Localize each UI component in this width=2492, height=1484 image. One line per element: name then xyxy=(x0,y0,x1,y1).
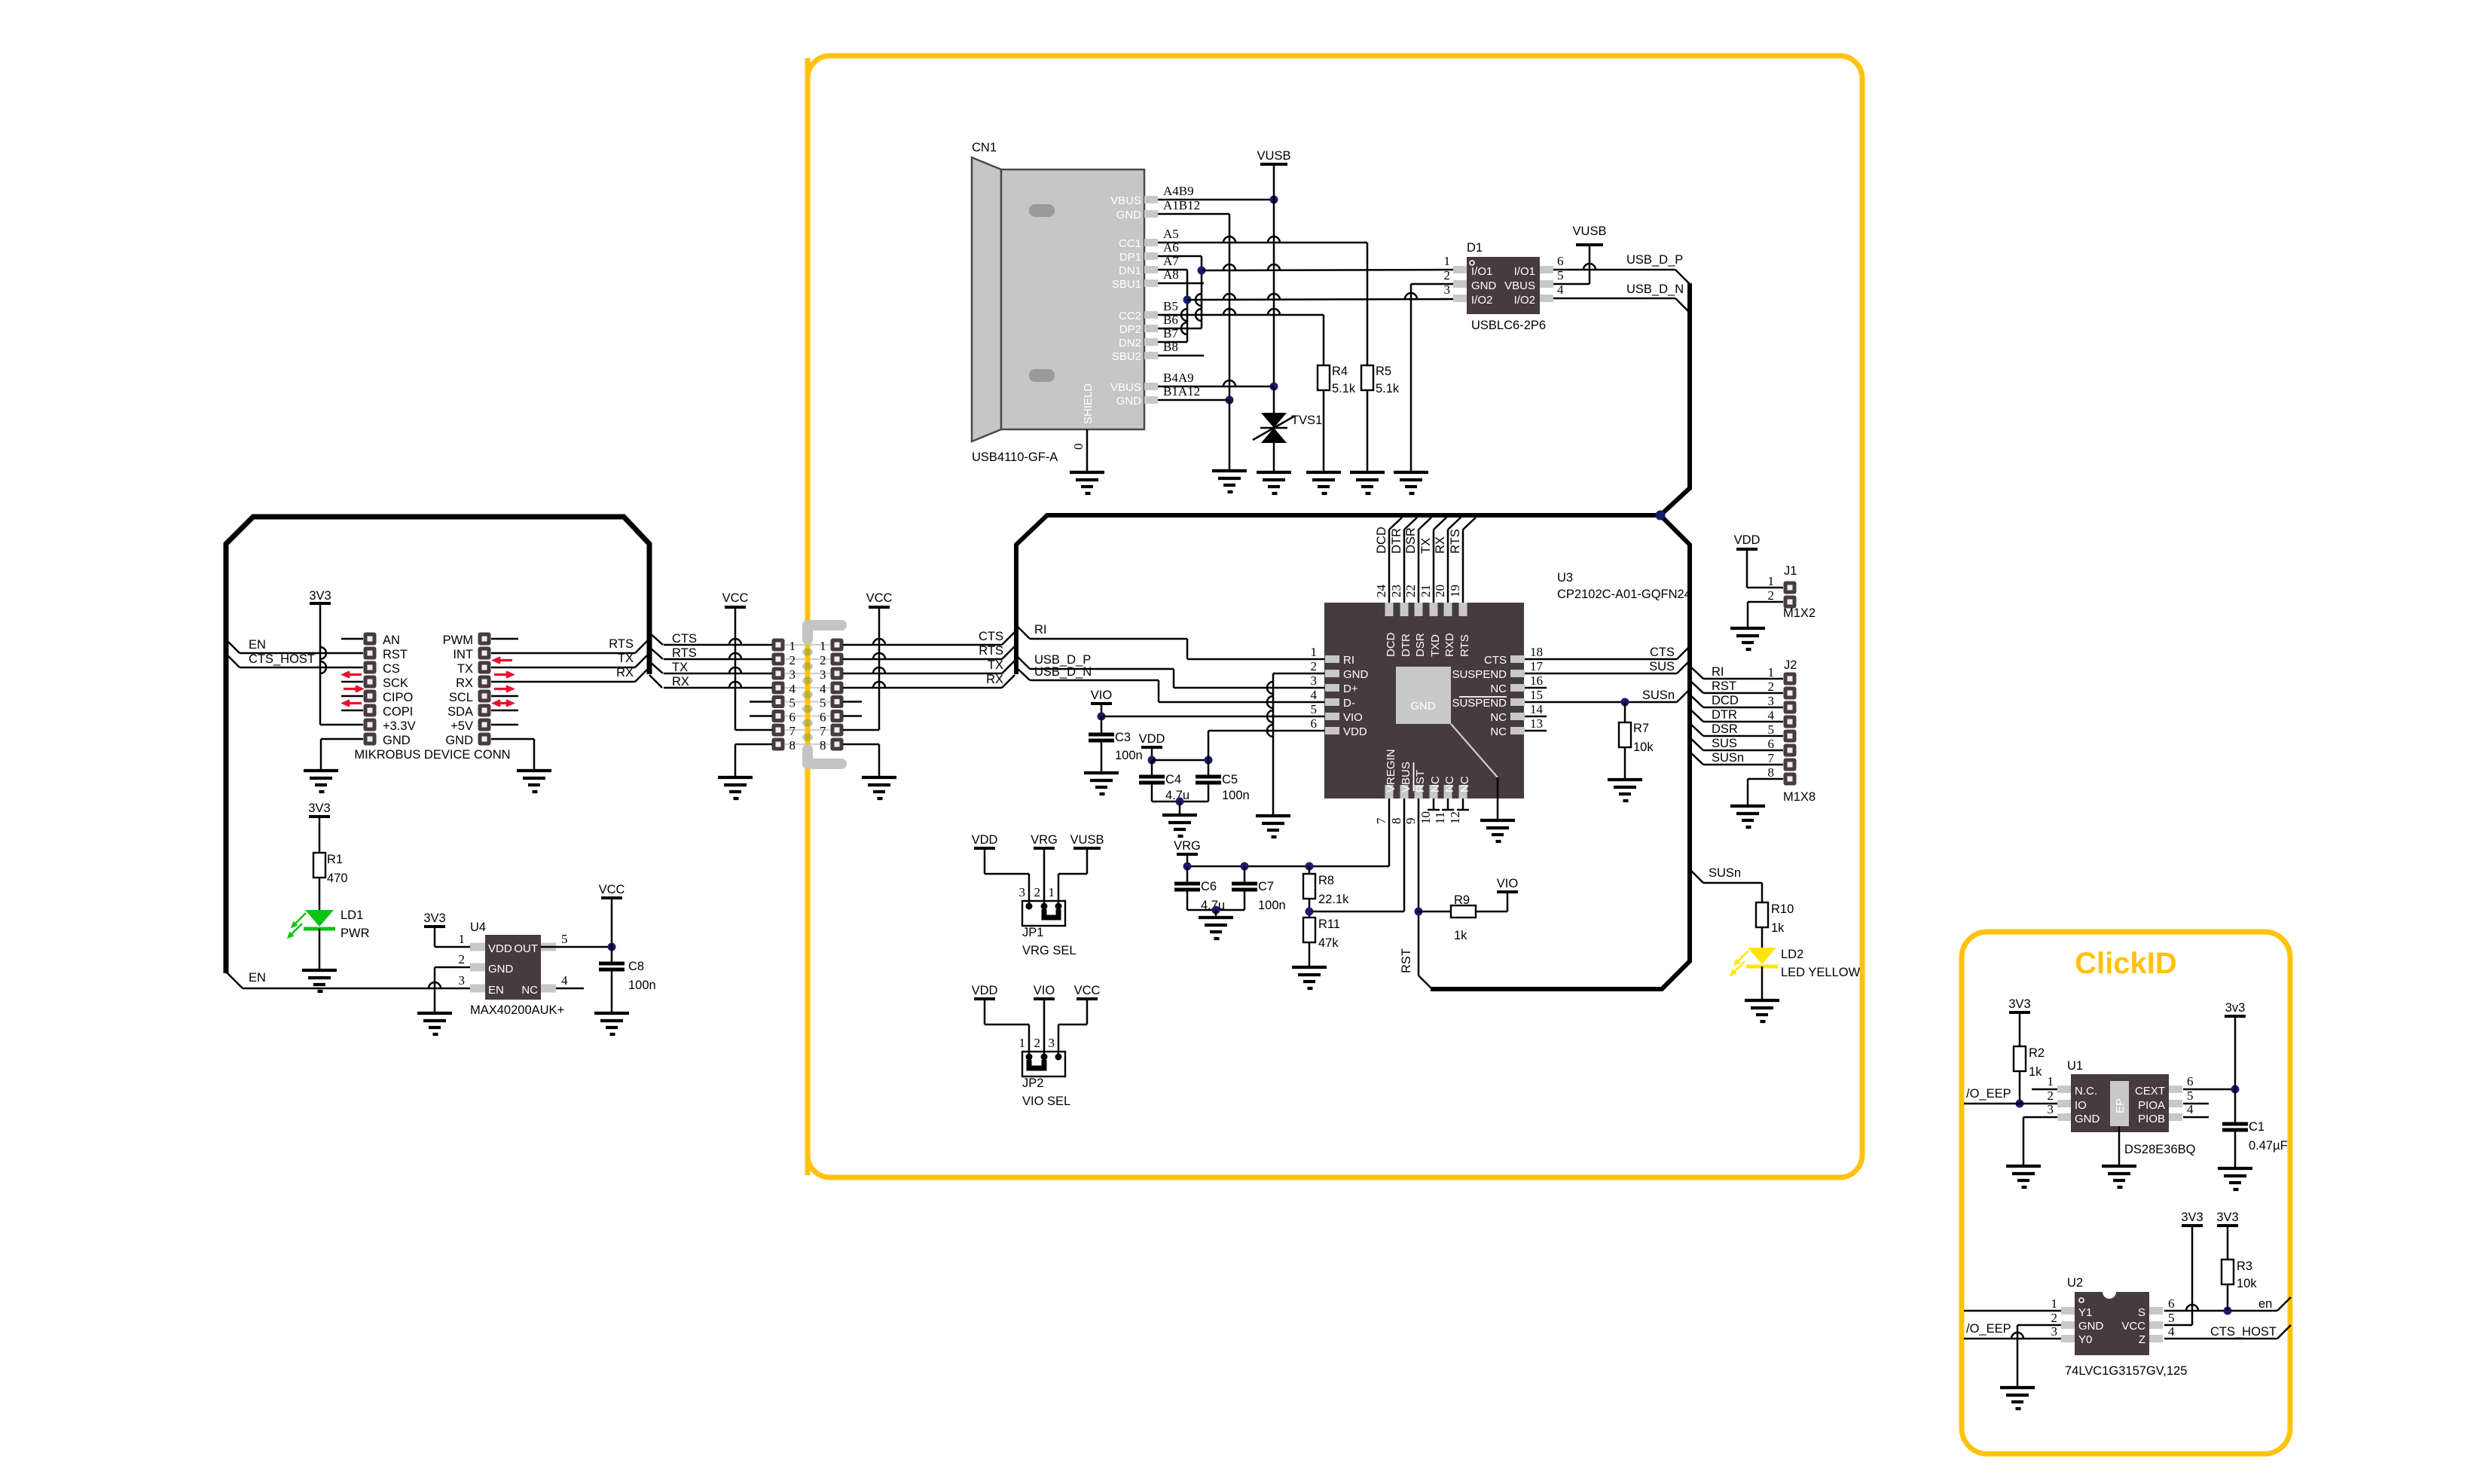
svg-text:TX: TX xyxy=(1419,538,1433,554)
svg-text:2: 2 xyxy=(1768,588,1775,603)
svg-text:8: 8 xyxy=(789,738,796,753)
svg-text:RX: RX xyxy=(456,676,473,690)
svg-text:VDD: VDD xyxy=(972,984,998,997)
svg-text:DTR: DTR xyxy=(1712,708,1737,722)
svg-text:J2: J2 xyxy=(1784,658,1797,672)
svg-text:1k: 1k xyxy=(2029,1065,2042,1079)
svg-text:RI: RI xyxy=(1343,654,1354,667)
svg-text:21: 21 xyxy=(1419,585,1433,597)
svg-text:M1X8: M1X8 xyxy=(1783,790,1816,804)
svg-text:USB_D_N: USB_D_N xyxy=(1034,665,1092,679)
svg-text:+5V: +5V xyxy=(450,719,473,733)
svg-text:20: 20 xyxy=(1433,585,1447,597)
svg-text:RX: RX xyxy=(616,666,634,679)
svg-text:5: 5 xyxy=(2168,1311,2175,1325)
svg-text:10: 10 xyxy=(1419,811,1433,824)
svg-text:R9: R9 xyxy=(1454,893,1470,907)
svg-text:U3: U3 xyxy=(1557,571,1573,585)
svg-text:6: 6 xyxy=(2187,1074,2194,1089)
svg-text:RXD: RXD xyxy=(1443,633,1456,657)
svg-text:RST: RST xyxy=(1712,679,1736,693)
svg-text:CTS: CTS xyxy=(979,630,1003,643)
svg-text:VIO SEL: VIO SEL xyxy=(1022,1095,1070,1108)
svg-text:3: 3 xyxy=(1768,694,1775,708)
svg-text:N.C.: N.C. xyxy=(2075,1085,2097,1098)
svg-text:47k: 47k xyxy=(1318,936,1339,950)
svg-text:1: 1 xyxy=(2051,1296,2058,1311)
svg-text:R4: R4 xyxy=(1332,365,1348,378)
svg-text:VCC: VCC xyxy=(722,591,749,605)
svg-text:GND: GND xyxy=(383,734,411,747)
svg-text:7: 7 xyxy=(1768,751,1775,765)
svg-text:5: 5 xyxy=(1768,722,1775,737)
svg-text:8: 8 xyxy=(1389,818,1403,825)
svg-text:OUT: OUT xyxy=(514,942,538,955)
svg-text:5: 5 xyxy=(1311,702,1318,716)
svg-text:1: 1 xyxy=(1768,574,1775,588)
svg-text:A5: A5 xyxy=(1163,227,1179,241)
svg-text:R2: R2 xyxy=(2029,1046,2045,1060)
svg-text:MIKROBUS DEVICE CONN: MIKROBUS DEVICE CONN xyxy=(354,748,510,762)
svg-text:NC: NC xyxy=(1490,682,1507,695)
svg-text:1: 1 xyxy=(1019,1036,1026,1050)
svg-text:GND: GND xyxy=(1343,668,1369,681)
svg-text:NC: NC xyxy=(1443,776,1456,792)
svg-text:17: 17 xyxy=(1530,659,1544,673)
svg-text:JP1: JP1 xyxy=(1022,926,1043,939)
svg-text:10k: 10k xyxy=(1633,740,1654,754)
svg-text:DN1: DN1 xyxy=(1119,264,1141,277)
svg-text:DS28E36BQ: DS28E36BQ xyxy=(2124,1143,2196,1156)
svg-text:en: en xyxy=(2258,1297,2272,1311)
svg-text:U4: U4 xyxy=(470,921,486,934)
svg-text:VUSB: VUSB xyxy=(1573,224,1607,238)
svg-text:NC: NC xyxy=(521,984,538,997)
svg-text:VCC: VCC xyxy=(599,883,625,896)
svg-text:SDA: SDA xyxy=(447,705,473,719)
svg-text:CIPO: CIPO xyxy=(383,691,414,704)
svg-text:CC1: CC1 xyxy=(1119,237,1141,250)
svg-text:CS: CS xyxy=(383,662,400,676)
svg-text:1: 1 xyxy=(459,932,466,946)
svg-text:3v3: 3v3 xyxy=(2225,1001,2246,1015)
svg-text:100n: 100n xyxy=(628,979,656,992)
svg-text:C6: C6 xyxy=(1201,880,1217,893)
svg-text:10k: 10k xyxy=(2237,1277,2257,1290)
svg-text:23: 23 xyxy=(1389,585,1403,597)
svg-text:RST: RST xyxy=(1414,770,1427,792)
svg-text:R3: R3 xyxy=(2237,1260,2252,1273)
svg-text:4: 4 xyxy=(820,682,826,696)
svg-text:5: 5 xyxy=(561,932,568,946)
svg-text:TVS1: TVS1 xyxy=(1291,414,1322,427)
svg-text:3: 3 xyxy=(820,667,826,682)
svg-text:B4A9: B4A9 xyxy=(1163,371,1194,385)
svg-text:SUS: SUS xyxy=(1712,737,1737,750)
svg-text:2: 2 xyxy=(2048,1089,2054,1103)
svg-text:100n: 100n xyxy=(1115,749,1143,762)
svg-text:EP: EP xyxy=(2114,1098,2127,1113)
svg-text:5.1k: 5.1k xyxy=(1376,382,1400,395)
svg-text:DSR: DSR xyxy=(1404,527,1418,554)
svg-text:GND: GND xyxy=(445,734,473,747)
svg-text:1: 1 xyxy=(2048,1074,2054,1089)
svg-text:LED YELLOW: LED YELLOW xyxy=(1781,966,1861,979)
svg-text:470: 470 xyxy=(327,872,348,885)
svg-text:24: 24 xyxy=(1374,585,1388,598)
svg-text:U2: U2 xyxy=(2067,1276,2083,1290)
svg-text:0.47µF: 0.47µF xyxy=(2249,1139,2288,1153)
svg-text:RX: RX xyxy=(986,673,1003,686)
svg-text:INT: INT xyxy=(453,648,473,661)
svg-text:Z: Z xyxy=(2139,1333,2145,1346)
svg-text:R5: R5 xyxy=(1376,365,1391,378)
svg-text:1: 1 xyxy=(820,639,826,653)
svg-text:SUSPEND: SUSPEND xyxy=(1452,668,1507,681)
svg-text:RST: RST xyxy=(1400,948,1413,973)
svg-text:6: 6 xyxy=(1768,737,1775,751)
svg-text:J1: J1 xyxy=(1784,564,1797,578)
svg-text:JP2: JP2 xyxy=(1022,1076,1043,1090)
svg-text:TX: TX xyxy=(672,661,688,674)
svg-text:2: 2 xyxy=(459,952,466,966)
svg-text:2: 2 xyxy=(820,653,826,667)
svg-text:LD1: LD1 xyxy=(341,908,363,922)
svg-text:14: 14 xyxy=(1530,702,1544,716)
svg-text:GND: GND xyxy=(488,963,514,976)
svg-text:TXD: TXD xyxy=(1429,634,1442,657)
svg-text:DCD: DCD xyxy=(1375,527,1388,554)
svg-text:4: 4 xyxy=(1311,688,1318,702)
svg-text:2: 2 xyxy=(1311,659,1318,673)
svg-text:VIO: VIO xyxy=(1091,689,1113,702)
svg-text:22: 22 xyxy=(1403,585,1418,597)
svg-text:VRG: VRG xyxy=(1031,833,1058,847)
svg-text:3: 3 xyxy=(1019,885,1026,899)
svg-text:13: 13 xyxy=(1530,716,1543,731)
svg-text:VBUS: VBUS xyxy=(1400,762,1412,792)
svg-text:4: 4 xyxy=(561,973,568,988)
svg-text:DP2: DP2 xyxy=(1119,323,1141,336)
svg-text:SUSn: SUSn xyxy=(1709,866,1741,880)
svg-text:R11: R11 xyxy=(1318,918,1340,931)
svg-text:VCC: VCC xyxy=(866,591,893,605)
svg-text:RI: RI xyxy=(1034,623,1047,637)
svg-text:COPI: COPI xyxy=(383,705,413,719)
svg-text:SCL: SCL xyxy=(449,691,473,704)
svg-text:5: 5 xyxy=(820,696,826,710)
svg-text:3V3: 3V3 xyxy=(423,911,445,925)
svg-text:A4B9: A4B9 xyxy=(1163,184,1194,198)
svg-text:R1: R1 xyxy=(327,853,343,866)
svg-text:I/O2: I/O2 xyxy=(1471,294,1492,307)
svg-text:3V3: 3V3 xyxy=(2216,1211,2238,1224)
svg-text:2: 2 xyxy=(1034,885,1041,899)
svg-text:5: 5 xyxy=(789,696,796,710)
svg-text:1: 1 xyxy=(1768,665,1775,679)
svg-text:18: 18 xyxy=(1530,645,1543,659)
svg-text:4: 4 xyxy=(789,682,796,696)
svg-text:C1: C1 xyxy=(2249,1120,2264,1134)
svg-text:3V3: 3V3 xyxy=(2181,1211,2203,1224)
svg-text:SBU1: SBU1 xyxy=(1112,278,1141,291)
svg-text:S: S xyxy=(2138,1306,2145,1319)
svg-text:GND: GND xyxy=(1116,209,1142,221)
svg-text:0: 0 xyxy=(1071,444,1086,450)
svg-text:3: 3 xyxy=(2051,1324,2058,1339)
svg-text:2: 2 xyxy=(1034,1036,1041,1050)
svg-text:15: 15 xyxy=(1530,688,1543,702)
svg-text:5: 5 xyxy=(2187,1089,2194,1103)
svg-text:SUS: SUS xyxy=(1649,660,1675,673)
svg-text:+3.3V: +3.3V xyxy=(383,719,416,733)
svg-text:VUSB: VUSB xyxy=(1257,149,1291,163)
svg-text:RST: RST xyxy=(383,648,408,661)
svg-text:SUSPEND: SUSPEND xyxy=(1452,697,1507,710)
svg-text:3V3: 3V3 xyxy=(309,589,331,603)
svg-text:EN: EN xyxy=(249,638,266,652)
svg-text:C3: C3 xyxy=(1115,731,1131,744)
svg-text:EN: EN xyxy=(488,984,504,997)
svg-text:Y0: Y0 xyxy=(2078,1333,2092,1346)
svg-text:GND: GND xyxy=(1410,700,1436,713)
svg-text:GND: GND xyxy=(1471,279,1497,292)
svg-text:TX: TX xyxy=(457,662,473,676)
svg-text:NC: NC xyxy=(1490,711,1507,724)
svg-text:I/O1: I/O1 xyxy=(1514,265,1535,278)
svg-text:DCD: DCD xyxy=(1385,632,1397,657)
svg-text:DTR: DTR xyxy=(1390,528,1403,554)
svg-text:RTS: RTS xyxy=(979,644,1003,658)
svg-text:6: 6 xyxy=(789,710,796,725)
svg-text:9: 9 xyxy=(1403,818,1418,825)
svg-text:VRG SEL: VRG SEL xyxy=(1022,944,1077,957)
svg-text:CTS: CTS xyxy=(1484,654,1507,667)
svg-text:RI: RI xyxy=(1712,665,1724,679)
svg-text:8: 8 xyxy=(820,738,826,753)
svg-text:1: 1 xyxy=(789,639,796,653)
svg-text:U1: U1 xyxy=(2067,1059,2083,1073)
svg-text:2: 2 xyxy=(1768,679,1775,694)
svg-text:USB_D_N: USB_D_N xyxy=(1626,282,1684,296)
svg-text:SHIELD: SHIELD xyxy=(1082,383,1095,424)
svg-text:/O_EEP: /O_EEP xyxy=(1966,1322,2011,1336)
svg-text:RTS: RTS xyxy=(1458,634,1471,657)
svg-text:LD2: LD2 xyxy=(1781,948,1803,961)
svg-text:7: 7 xyxy=(1374,817,1388,824)
svg-text:CC2: CC2 xyxy=(1119,310,1141,322)
svg-text:2: 2 xyxy=(2051,1311,2058,1325)
svg-text:PWR: PWR xyxy=(341,927,370,940)
svg-text:VIO: VIO xyxy=(1497,877,1519,890)
svg-text:VBUS: VBUS xyxy=(1504,279,1535,292)
svg-text:SCK: SCK xyxy=(383,676,408,690)
svg-text:M1X2: M1X2 xyxy=(1783,606,1816,620)
svg-text:NC: NC xyxy=(1429,776,1442,792)
svg-text:GND: GND xyxy=(2075,1113,2100,1125)
svg-text:PIOB: PIOB xyxy=(2138,1113,2165,1125)
svg-text:USBLC6-2P6: USBLC6-2P6 xyxy=(1471,319,1546,332)
svg-text:CTS_HOST: CTS_HOST xyxy=(2210,1325,2277,1339)
svg-text:3V3: 3V3 xyxy=(2008,997,2030,1011)
svg-text:IO: IO xyxy=(2075,1099,2087,1112)
svg-text:6: 6 xyxy=(820,710,826,725)
svg-text:CTS: CTS xyxy=(672,632,697,646)
svg-text:SUSn: SUSn xyxy=(1642,689,1675,702)
svg-text:DSR: DSR xyxy=(1414,633,1427,657)
svg-text:100n: 100n xyxy=(1222,789,1250,802)
svg-text:Y1: Y1 xyxy=(2078,1306,2092,1319)
svg-text:VREGIN: VREGIN xyxy=(1385,749,1397,792)
svg-text:R10: R10 xyxy=(1771,902,1794,916)
svg-text:5.1k: 5.1k xyxy=(1332,382,1356,395)
svg-text:SBU2: SBU2 xyxy=(1112,350,1141,363)
svg-text:VDD: VDD xyxy=(1139,732,1165,746)
svg-text:VRG: VRG xyxy=(1174,839,1201,853)
svg-text:VDD: VDD xyxy=(1343,725,1367,738)
svg-text:TX: TX xyxy=(988,658,1003,672)
svg-text:CTS: CTS xyxy=(1650,646,1675,659)
svg-text:DN2: DN2 xyxy=(1119,337,1141,350)
svg-text:AN: AN xyxy=(383,634,400,647)
svg-text:6: 6 xyxy=(1311,716,1318,731)
svg-text:PIOA: PIOA xyxy=(2138,1099,2165,1112)
svg-text:100n: 100n xyxy=(1258,899,1286,912)
svg-text:I/O2: I/O2 xyxy=(1514,294,1535,307)
svg-text:1k: 1k xyxy=(1454,929,1467,942)
svg-text:C8: C8 xyxy=(628,960,644,973)
svg-text:D1: D1 xyxy=(1467,241,1483,255)
svg-text:VBUS: VBUS xyxy=(1110,381,1141,394)
svg-text:GND: GND xyxy=(2078,1320,2104,1333)
svg-text:7: 7 xyxy=(789,724,796,738)
svg-text:22.1k: 22.1k xyxy=(1318,893,1349,906)
svg-text:RX: RX xyxy=(672,675,689,689)
svg-text:SUSn: SUSn xyxy=(1712,751,1744,765)
svg-text:VBUS: VBUS xyxy=(1110,194,1141,207)
svg-text:VCC: VCC xyxy=(1074,984,1101,997)
svg-text:RTS: RTS xyxy=(1449,529,1462,554)
svg-text:6: 6 xyxy=(1557,254,1564,268)
svg-text:C4: C4 xyxy=(1165,773,1181,786)
svg-text:RTS: RTS xyxy=(609,637,634,651)
svg-text:/O_EEP: /O_EEP xyxy=(1966,1087,2011,1101)
svg-text:VUSB: VUSB xyxy=(1070,833,1104,847)
svg-text:3V3: 3V3 xyxy=(308,802,330,815)
svg-text:DP1: DP1 xyxy=(1119,251,1141,264)
svg-text:MAX40200AUK+: MAX40200AUK+ xyxy=(470,1003,564,1017)
svg-text:VDD: VDD xyxy=(1734,533,1761,547)
svg-text:4: 4 xyxy=(2168,1324,2175,1339)
svg-text:R8: R8 xyxy=(1318,874,1334,887)
svg-text:I/O1: I/O1 xyxy=(1471,265,1492,278)
svg-text:DCD: DCD xyxy=(1712,694,1739,707)
svg-text:74LVC1G3157GV,125: 74LVC1G3157GV,125 xyxy=(2065,1364,2187,1378)
svg-text:C7: C7 xyxy=(1258,880,1274,893)
svg-text:USB_D_P: USB_D_P xyxy=(1626,253,1683,267)
svg-text:4: 4 xyxy=(1768,708,1775,722)
svg-text:1k: 1k xyxy=(1771,921,1785,935)
svg-text:2: 2 xyxy=(1444,268,1451,282)
svg-text:NC: NC xyxy=(1490,725,1507,738)
svg-text:EN: EN xyxy=(249,971,266,985)
svg-text:CP2102C-A01-GQFN24: CP2102C-A01-GQFN24 xyxy=(1557,588,1691,601)
svg-text:1: 1 xyxy=(1049,885,1055,899)
svg-text:8: 8 xyxy=(1768,765,1775,780)
svg-text:GND: GND xyxy=(1116,395,1142,408)
svg-text:USB4110-GF-A: USB4110-GF-A xyxy=(972,450,1058,464)
svg-text:6: 6 xyxy=(2168,1296,2175,1311)
svg-text:3: 3 xyxy=(1311,673,1318,688)
svg-text:ClickID: ClickID xyxy=(2075,947,2177,980)
svg-text:1: 1 xyxy=(1444,254,1451,268)
svg-text:CEXT: CEXT xyxy=(2135,1085,2165,1098)
svg-text:D-: D- xyxy=(1343,697,1355,710)
svg-text:VDD: VDD xyxy=(972,833,998,847)
svg-text:RTS: RTS xyxy=(672,646,697,660)
svg-text:2: 2 xyxy=(789,653,796,667)
svg-text:3: 3 xyxy=(1049,1036,1055,1050)
svg-text:TX: TX xyxy=(618,652,634,665)
svg-text:3: 3 xyxy=(789,667,796,682)
svg-text:DTR: DTR xyxy=(1400,634,1412,657)
svg-text:NC: NC xyxy=(1458,776,1471,792)
svg-text:D+: D+ xyxy=(1343,682,1358,695)
svg-text:R7: R7 xyxy=(1633,722,1649,735)
svg-text:VDD: VDD xyxy=(488,942,512,955)
svg-text:C5: C5 xyxy=(1222,773,1238,786)
svg-text:19: 19 xyxy=(1448,585,1462,597)
svg-text:7: 7 xyxy=(820,724,826,738)
svg-text:VIO: VIO xyxy=(1343,711,1363,724)
svg-text:3: 3 xyxy=(459,973,466,988)
svg-text:DSR: DSR xyxy=(1712,722,1738,736)
svg-text:12: 12 xyxy=(1448,811,1462,824)
svg-text:CTS_HOST: CTS_HOST xyxy=(249,652,315,666)
svg-text:VIO: VIO xyxy=(1034,984,1055,997)
svg-text:RX: RX xyxy=(1434,536,1447,554)
svg-text:CN1: CN1 xyxy=(972,141,997,154)
svg-text:B5: B5 xyxy=(1163,299,1178,313)
svg-text:11: 11 xyxy=(1433,812,1447,824)
svg-text:PWM: PWM xyxy=(443,634,473,647)
svg-text:16: 16 xyxy=(1530,673,1543,688)
svg-text:VCC: VCC xyxy=(2121,1320,2145,1333)
svg-text:1: 1 xyxy=(1311,645,1318,659)
